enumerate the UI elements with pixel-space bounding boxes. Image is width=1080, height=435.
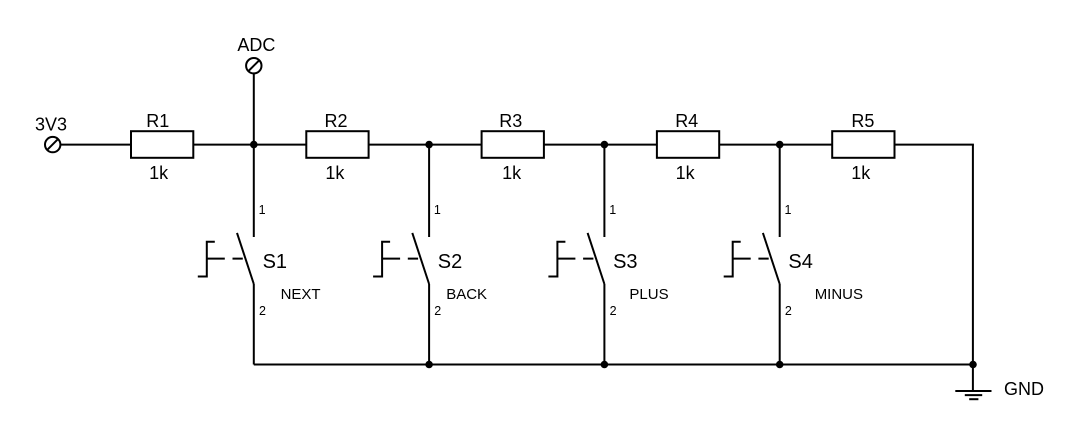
svg-text:1k: 1k	[676, 163, 696, 183]
svg-text:1: 1	[609, 203, 616, 217]
svg-text:MINUS: MINUS	[815, 286, 863, 303]
switch S1 lever	[237, 233, 254, 284]
switch S1 actuator	[198, 242, 215, 277]
svg-text:S3: S3	[613, 251, 637, 273]
switch S3 top pin wire	[603, 145, 605, 237]
switch S4 top pin wire	[779, 145, 781, 237]
wire R1 to node A	[193, 144, 306, 146]
switch S3 actuator	[548, 242, 565, 277]
ground	[955, 391, 991, 399]
svg-text:R5: R5	[851, 111, 874, 131]
svg-text:R4: R4	[675, 111, 698, 131]
terminal ADC	[246, 58, 261, 73]
svg-text:2: 2	[434, 304, 441, 318]
switch S3 linkage dashes	[557, 258, 593, 260]
wire R3 to node C	[544, 144, 657, 146]
switch S4 lever	[763, 233, 780, 284]
svg-text:R1: R1	[146, 111, 169, 131]
switch S3 bottom pin wire	[603, 284, 605, 365]
junction dot rail S3	[601, 361, 609, 369]
resistor R3	[482, 131, 544, 158]
svg-text:1k: 1k	[502, 163, 522, 183]
svg-text:NEXT: NEXT	[281, 286, 321, 303]
svg-text:GND: GND	[1004, 379, 1044, 399]
svg-text:1: 1	[259, 203, 266, 217]
junction dot rail S2	[425, 361, 433, 369]
switch S4 actuator	[724, 242, 741, 277]
svg-text:BACK: BACK	[446, 286, 487, 303]
resistor R2	[306, 131, 368, 158]
resistor R4	[657, 131, 719, 158]
node D junction dot	[776, 141, 784, 149]
switch S1 linkage dashes	[207, 258, 243, 260]
wire R2 to node B	[369, 144, 482, 146]
wire R5 to right corner	[895, 144, 974, 146]
wire ADC to node A	[253, 74, 255, 145]
resistor R5	[832, 131, 894, 158]
switch S2 lever	[412, 233, 429, 284]
switch S2 bottom pin wire	[428, 284, 430, 365]
switch S3 lever	[588, 233, 605, 284]
switch S1 bottom pin wire	[253, 284, 255, 365]
svg-text:3V3: 3V3	[35, 115, 67, 135]
svg-text:PLUS: PLUS	[629, 286, 668, 303]
wire bottom rail	[254, 364, 974, 366]
node A junction dot	[250, 141, 258, 149]
switch S4 linkage dashes	[733, 258, 769, 260]
switch S1 top pin wire	[253, 145, 255, 237]
svg-text:R2: R2	[324, 111, 347, 131]
wire right vertical to ground	[972, 145, 974, 391]
svg-text:1k: 1k	[325, 163, 345, 183]
svg-text:1: 1	[785, 203, 792, 217]
node C junction dot	[601, 141, 609, 149]
switch S4 bottom pin wire	[779, 284, 781, 365]
svg-text:S1: S1	[263, 251, 287, 273]
svg-text:1: 1	[434, 203, 441, 217]
junction dot rail right	[969, 361, 977, 369]
junction dot rail S4	[776, 361, 784, 369]
svg-text:2: 2	[610, 304, 617, 318]
svg-text:1k: 1k	[851, 163, 871, 183]
svg-text:S4: S4	[788, 251, 812, 273]
resistor R1	[131, 131, 193, 158]
svg-text:1k: 1k	[149, 163, 169, 183]
wire 3V3 to R1	[61, 144, 132, 146]
svg-text:R3: R3	[499, 111, 522, 131]
switch S2 top pin wire	[428, 145, 430, 237]
svg-text:2: 2	[259, 304, 266, 318]
switch S2 actuator	[373, 242, 390, 277]
switch S2 linkage dashes	[382, 258, 418, 260]
svg-text:ADC: ADC	[237, 35, 275, 55]
node B junction dot	[425, 141, 433, 149]
terminal 3V3	[45, 137, 60, 152]
wire R4 to node D	[719, 144, 832, 146]
svg-text:S2: S2	[438, 251, 462, 273]
svg-text:2: 2	[785, 304, 792, 318]
